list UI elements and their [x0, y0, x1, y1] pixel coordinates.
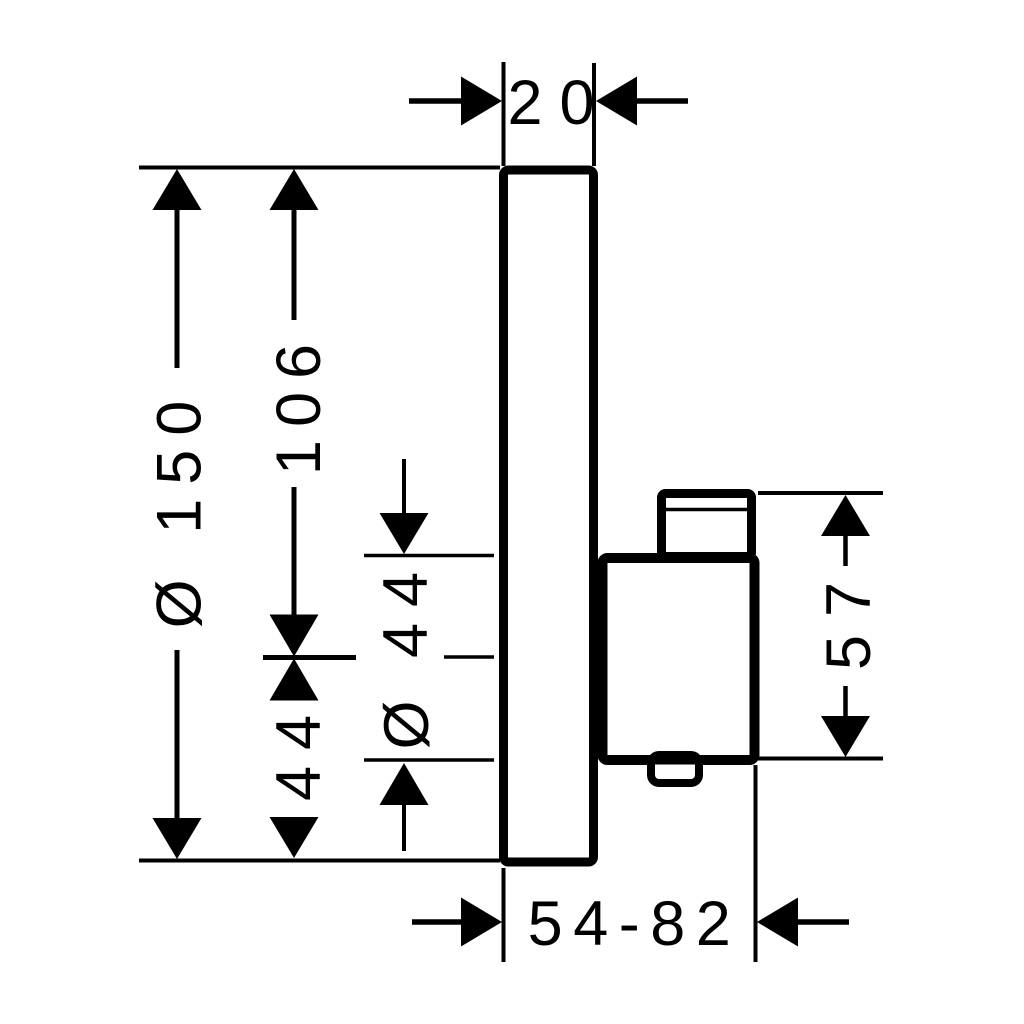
dim 106: top arrow [270, 169, 319, 210]
dim 150: top extension line [139, 166, 500, 170]
dim 54-82: right arrow [790, 919, 849, 925]
svg-text:57: 57 [814, 564, 884, 670]
svg-text:44: 44 [371, 556, 441, 658]
function tab [651, 755, 699, 783]
dim 20: left extension line [502, 62, 506, 166]
dim 20: right arrow [634, 98, 688, 104]
knob inner line [666, 508, 747, 512]
dim 20: right extension line [592, 63, 596, 166]
dim 20: left arrow [409, 98, 463, 104]
svg-text:106: 106 [264, 331, 334, 475]
dim Ø44: bottom tick [364, 758, 494, 762]
svg-text:Ø 150: Ø 150 [145, 387, 215, 629]
svg-text:Ø: Ø [372, 700, 442, 749]
dim 106: bottom arrow [292, 487, 297, 617]
dim Ø44: bottom arrow [380, 763, 429, 805]
dim 150: bottom arrow [175, 650, 180, 820]
dim Ø44: top tick [364, 554, 494, 558]
valve knob [662, 494, 752, 557]
svg-text:54-82: 54-82 [528, 889, 742, 959]
dim 57: bottom extension line [758, 757, 883, 761]
center tick right segment [444, 655, 494, 659]
valve body [603, 558, 755, 760]
cover plate (side view) [504, 170, 594, 862]
dim 54-82: left arrow [412, 919, 464, 925]
dim 44 left: top arrow [270, 659, 319, 701]
dim 150: bottom extension line [139, 859, 500, 863]
body bottom edge over tab [640, 756, 710, 765]
svg-text:44: 44 [264, 699, 334, 801]
dim Ø44: top stem [402, 459, 406, 515]
dim 44 left: bottom arrow [270, 817, 319, 858]
svg-text:0: 0 [559, 68, 594, 138]
dim 150: top arrow [153, 169, 202, 210]
dim 57: bottom arrow [843, 686, 848, 718]
svg-text:2: 2 [507, 68, 542, 138]
dim 57: top extension line [758, 491, 883, 495]
dim Ø44: top arrow [380, 513, 429, 554]
dim 54-82: right extension line [754, 765, 758, 962]
dim 57: top arrow [821, 495, 870, 536]
center tick left segment [263, 655, 356, 660]
dim 54-82: left extension line [502, 868, 506, 962]
